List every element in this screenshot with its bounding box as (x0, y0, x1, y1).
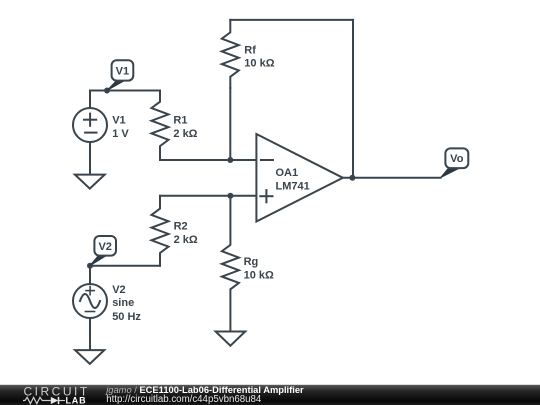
wire non-inverting input rail (160, 195, 256, 197)
wire Rf bottom to inverting node (229, 88, 231, 160)
svg-text:V2: V2 (98, 241, 111, 253)
svg-text:R1: R1 (173, 114, 187, 126)
resistor R2 (152, 196, 169, 266)
node flag V2 (90, 236, 116, 266)
label Rf 10 kΩ (244, 44, 274, 69)
ground Rg (216, 332, 246, 346)
svg-text:OA1: OA1 (276, 167, 299, 179)
svg-text:2 kΩ: 2 kΩ (173, 128, 197, 140)
svg-text:LAB: LAB (66, 396, 87, 405)
wire V1 bottom lead (89, 142, 91, 175)
label V1 1 V (112, 115, 129, 140)
resistor Rf (222, 20, 239, 88)
svg-text:10 kΩ: 10 kΩ (244, 58, 274, 70)
node flag Vo (441, 148, 469, 177)
op-amp OA1 (256, 134, 343, 222)
svg-text:50 Hz: 50 Hz (112, 311, 141, 323)
wire inverting input rail (160, 159, 256, 161)
svg-text:Rg: Rg (244, 256, 259, 268)
footer title text (104, 385, 304, 405)
svg-text:V1: V1 (112, 115, 125, 127)
footer bar (0, 385, 540, 405)
label OA1 LM741 (276, 167, 310, 192)
wire top feedback horizontal (230, 19, 353, 21)
resistor R1 (152, 91, 169, 161)
svg-text:2 kΩ: 2 kΩ (174, 234, 198, 246)
voltage source V2 (73, 284, 107, 318)
node flag V1 (107, 60, 133, 90)
svg-text:http://circuitlab.com/c44p5vbn: http://circuitlab.com/c44p5vbn68u84 (106, 394, 262, 405)
svg-text:1 V: 1 V (112, 128, 129, 140)
svg-text:LM741: LM741 (276, 180, 310, 192)
svg-text:sine: sine (112, 297, 134, 309)
svg-text:V1: V1 (116, 65, 129, 77)
node junction inverting (Rf/R1) (227, 157, 233, 163)
ground V1 (75, 175, 105, 189)
label R1 2 kΩ (173, 114, 197, 139)
ground V2 (75, 350, 104, 364)
label R2 2 kΩ (174, 220, 198, 245)
wire output (343, 177, 441, 179)
node junction V1 flag tap (104, 88, 110, 94)
wire V2 bottom lead (89, 318, 91, 350)
wire V1 top lead (89, 91, 91, 109)
svg-text:R2: R2 (174, 220, 188, 232)
wire V1 node horizontal (90, 90, 160, 92)
voltage source V1 (73, 108, 107, 142)
wire R2 bottom horizontal (90, 265, 160, 267)
resistor Rg (222, 196, 239, 332)
node junction output/feedback (349, 175, 355, 181)
CircuitLab logo (23, 385, 90, 405)
node junction non-inverting (Rg/R2) (227, 193, 233, 199)
label Rg 10 kΩ (244, 256, 274, 281)
label V2 sine 50 Hz (112, 284, 141, 323)
svg-text:V2: V2 (112, 284, 125, 296)
wire feedback right vertical (352, 20, 354, 178)
svg-text:Vo: Vo (450, 153, 464, 165)
node junction V2 flag tap (87, 263, 93, 269)
wire V2 top lead (89, 266, 91, 284)
svg-text:10 kΩ: 10 kΩ (244, 269, 274, 281)
svg-text:Rf: Rf (244, 44, 256, 56)
